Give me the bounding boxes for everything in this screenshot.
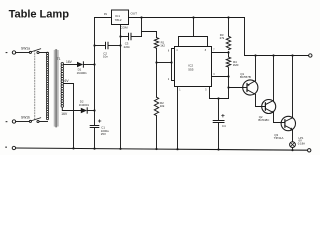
wire: Q1 emitter to rail	[254, 54, 256, 80]
transformer T1 primary winding	[46, 52, 48, 120]
wire: pin5	[210, 87, 229, 100]
wire: rail to R1	[142, 32, 157, 38]
capacitor C4	[213, 99, 226, 151]
node 16V (top tap)	[64, 60, 78, 65]
wire	[39, 52, 47, 54]
resistor R3	[220, 18, 231, 50]
svg-text:7812: 7812	[115, 18, 122, 22]
terminal (right, +V)	[309, 54, 312, 57]
svg-text:4: 4	[176, 50, 178, 52]
svg-text:SW1a: SW1a	[21, 46, 30, 50]
svg-text:TIP41A: TIP41A	[274, 136, 284, 140]
wire: IN pin	[95, 17, 112, 19]
switch linkage (dashed)	[34, 51, 36, 120]
svg-text:6: 6	[168, 50, 170, 52]
transistor Q3	[274, 116, 296, 140]
wire: trigger/threshold link	[157, 49, 175, 81]
wire: Q3 collector to rail	[291, 54, 293, 117]
resistor R2	[154, 97, 165, 115]
svg-text:C4: C4	[222, 124, 226, 128]
node 16V (bottom tap)	[61, 108, 81, 116]
diode D2	[79, 100, 95, 114]
wire: 0V bottom rail	[16, 147, 308, 150]
svg-text:Table Lamp: Table Lamp	[9, 9, 70, 21]
capacitor C2	[95, 42, 121, 58]
wire: pin7 to R3/R4	[212, 51, 230, 53]
node 6V (centre tap)	[64, 79, 74, 149]
svg-text:BC557B: BC557B	[240, 75, 251, 79]
transistor Q1	[240, 72, 258, 95]
transformer T1 secondary winding	[61, 63, 64, 108]
wire: pin3 out	[212, 75, 230, 77]
transformer T1 core	[54, 50, 59, 127]
svg-text:1: 1	[179, 90, 181, 92]
capacitor C1	[90, 120, 109, 136]
svg-text:IN: IN	[104, 12, 107, 16]
wire	[39, 121, 47, 123]
wire: pin1 to 0V	[176, 87, 178, 151]
terminal (bottom right)	[308, 149, 311, 152]
wire: rectified DC vertical	[93, 18, 95, 150]
svg-text:25V: 25V	[101, 132, 106, 136]
wire: Q1 collector to Q2 base	[256, 94, 266, 106]
terminal (bottom left)	[5, 146, 15, 149]
svg-text:1M0: 1M0	[233, 63, 239, 67]
wire	[16, 52, 30, 54]
switch SW1a	[21, 46, 41, 53]
svg-text:COM: COM	[120, 25, 128, 29]
wire: +V mid rail	[245, 18, 309, 56]
svg-text:27k: 27k	[220, 36, 225, 40]
wire: Q3 emitter to lamp	[292, 130, 294, 142]
svg-text:1N4001: 1N4001	[77, 71, 88, 75]
svg-text:T1: T1	[57, 57, 61, 61]
wire: Q2 collector to rail	[272, 54, 274, 100]
svg-text:16V: 16V	[66, 60, 73, 64]
svg-text:1N4001: 1N4001	[79, 103, 90, 107]
terminal N	[6, 120, 16, 123]
wire: Q2 emitter to Q3 base	[274, 113, 285, 123]
wire	[155, 48, 157, 97]
wire: Vcc/reset bridge	[179, 18, 208, 47]
svg-text:SW1b: SW1b	[21, 115, 30, 119]
terminal L	[6, 51, 16, 54]
svg-text:555: 555	[188, 67, 193, 71]
svg-text:BC548C: BC548C	[258, 118, 269, 122]
wire	[16, 121, 30, 123]
switch SW1b	[21, 115, 41, 122]
svg-text:10n: 10n	[103, 55, 108, 59]
wire: R4 to Q1 base	[227, 68, 243, 98]
resistor R4	[226, 52, 238, 68]
lamp LP1	[290, 136, 306, 151]
diode D1	[77, 62, 95, 75]
svg-text:7: 7	[213, 50, 215, 52]
wire: COM line	[119, 25, 121, 150]
svg-text:5: 5	[205, 90, 207, 92]
timer IC2	[175, 47, 212, 87]
transistor Q2	[258, 100, 275, 123]
svg-text:6V: 6V	[65, 79, 70, 83]
wire: top +V rail	[129, 16, 245, 18]
svg-text:10k: 10k	[160, 104, 165, 108]
wire: C3 to rail	[141, 18, 143, 37]
svg-text:16V: 16V	[61, 112, 68, 116]
resistor R1	[154, 38, 165, 49]
svg-text:0.18A: 0.18A	[298, 142, 305, 146]
pin numbers	[168, 50, 215, 92]
svg-text:8: 8	[205, 50, 207, 52]
svg-text:1k2: 1k2	[160, 44, 165, 48]
capacitor C3	[121, 33, 142, 49]
svg-text:220n: 220n	[124, 45, 131, 49]
svg-text:3: 3	[213, 74, 215, 76]
regulator IC1	[104, 10, 137, 29]
svg-text:OUT: OUT	[131, 12, 138, 16]
svg-text:2: 2	[168, 79, 170, 81]
wire	[156, 116, 158, 149]
